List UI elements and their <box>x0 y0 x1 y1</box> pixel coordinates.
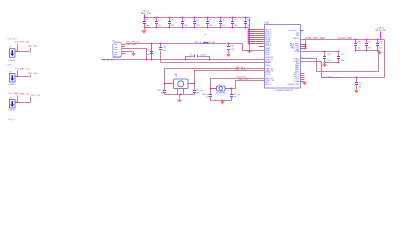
svg-text:L5V_uxx_F: L5V_uxx_F <box>102 60 113 62</box>
capacitor C16 <box>324 52 326 57</box>
capacitor C5 <box>182 18 184 22</box>
wire J7 pin <box>16 102 31 104</box>
svg-text:U2A: U2A <box>265 21 270 24</box>
svg-text:STM32F103RCT6: STM32F103RCT6 <box>275 90 294 92</box>
ground Y2 <box>222 100 224 101</box>
wire vbus drop <box>151 44 153 61</box>
wire right cap group bottom rail <box>356 50 379 52</box>
wire SWD pins <box>301 44 306 46</box>
wire VDD pin 3 <box>249 33 265 35</box>
wire USB5V long <box>102 59 265 61</box>
svg-text:VCC_BAT_5V0: VCC_BAT_5V0 <box>15 68 30 71</box>
usb pin stub <box>122 51 126 53</box>
usb pin stub <box>122 48 126 50</box>
crystal Y2 <box>217 86 226 91</box>
usb pin stub <box>122 46 126 48</box>
wire VBUS <box>126 43 243 45</box>
svg-text:xxx_x: xxx_x <box>8 118 15 121</box>
svg-text:via out Tw: via out Tw <box>288 29 297 32</box>
capacitor C6 <box>194 18 196 22</box>
wire J5 to power label <box>17 44 19 52</box>
wire XTAL_OUT <box>195 71 265 84</box>
ground C13 <box>228 53 230 54</box>
connector J6 body <box>10 74 16 83</box>
svg-text:3V3_OUT_5V0: 3V3_OUT_5V0 <box>15 41 30 43</box>
wire X32K_IN <box>211 79 265 89</box>
wire J7 to net label <box>30 97 32 103</box>
capacitor C3 <box>156 18 158 22</box>
wire cap bank top rail <box>145 17 250 19</box>
wire VDD pin 4 <box>249 35 265 37</box>
wire Y1 case pins <box>177 89 179 95</box>
svg-text:VSSA: VSSA <box>295 80 301 83</box>
crystal Y1 <box>174 79 189 89</box>
capacitor C14 <box>194 84 196 91</box>
mcu U2 body <box>265 25 301 89</box>
usb pin stub <box>122 44 126 46</box>
wire SWCLK net <box>301 39 385 41</box>
svg-text:FBL_uv: FBL_uv <box>195 42 202 44</box>
ground usb <box>122 51 134 53</box>
svg-text:PB10: PB10 <box>265 48 270 50</box>
ground VSSA <box>304 81 306 83</box>
capacitor C19 <box>366 40 368 44</box>
junction USB5V dots <box>146 59 148 61</box>
svg-text:PB12: PB12 <box>265 54 270 56</box>
svg-text:xCB-02: xCB-02 <box>8 84 16 86</box>
ground MCU VSS <box>249 50 251 51</box>
svg-text:1: 1 <box>16 75 17 77</box>
wire series cap bump <box>186 57 194 60</box>
wire Y2 right pad <box>226 88 232 90</box>
svg-text:xCB-02: xCB-02 <box>8 60 16 62</box>
wire J6 to net label <box>30 75 32 77</box>
capacitor C4 <box>169 18 171 22</box>
svg-text:SWCLK: SWCLK <box>293 38 300 40</box>
wire Y2 left pad <box>211 88 217 90</box>
capacitor C12 <box>164 84 166 91</box>
wire USB_D+ <box>126 49 147 60</box>
svg-text:220nF: 220nF <box>200 55 206 57</box>
usb pin stub <box>122 53 126 55</box>
wire VDD pin 5 <box>249 37 265 39</box>
svg-text:BOOT: BOOT <box>265 84 271 86</box>
wire VDD pin 1 <box>249 29 265 31</box>
wire J6 to power label <box>17 71 19 77</box>
wire VCAP2 net <box>301 40 385 78</box>
svg-text:MCL_J6D: MCL_J6D <box>28 73 38 75</box>
wire VUSB to MCU <box>161 62 265 64</box>
capacitor C10 <box>151 44 153 52</box>
svg-text:VCC_BAT_5V0: VCC_BAT_5V0 <box>15 93 30 96</box>
svg-text:L1.5M_TCK1_SWD: L1.5M_TCK1_SWD <box>305 38 325 40</box>
svg-text:x: x <box>301 32 302 34</box>
wire J5 pin <box>16 51 31 53</box>
wire XTAL_IN <box>165 69 265 84</box>
capacitor C15 <box>210 89 212 95</box>
capacitor C21 <box>356 77 358 79</box>
wire Y1 ground rail <box>165 94 195 96</box>
svg-text:uu1_RRRR_1_clar: uu1_RRRR_1_clar <box>322 76 340 79</box>
connector J5 body <box>10 49 16 58</box>
wire cap C11 drop <box>160 51 162 63</box>
svg-text:VSS_2: VSS_2 <box>265 45 271 47</box>
svg-text:MCL_J7D: MCL_J7D <box>31 95 41 97</box>
capacitor C17 <box>338 52 340 57</box>
wire VSS column to ground <box>249 44 251 50</box>
svg-text:USB_DM50: USB_DM50 <box>126 44 137 46</box>
wire VDD pin 2 <box>249 31 265 33</box>
ferrite bead FB1 <box>203 42 207 43</box>
svg-text:PC11: PC11 <box>265 74 270 76</box>
svg-text:PB14: PB14 <box>265 65 270 67</box>
svg-text:nc: nc <box>204 34 206 36</box>
svg-text:Txpin1/4_SWO: Txpin1/4_SWO <box>337 38 353 40</box>
wire Y1 right pad <box>189 83 195 85</box>
capacitor C22 <box>231 89 233 95</box>
ground Y1 <box>179 95 181 100</box>
ground cap bank <box>144 28 146 31</box>
wire VSSA stub <box>301 81 305 83</box>
wire VDDM rail <box>301 51 339 53</box>
ground right cap group <box>379 50 381 51</box>
capacitor C20 <box>377 40 379 44</box>
wire cap bank bottom rail <box>145 27 250 29</box>
svg-text:32.768KHZ: 32.768KHZ <box>216 93 226 95</box>
svg-text:MCU_P00: MCU_P00 <box>141 13 152 15</box>
capacitor C11 <box>160 44 162 48</box>
wire VDDM bottom rail <box>325 62 339 64</box>
wire J5 to net label <box>30 48 32 52</box>
wire PC13 stubs <box>301 73 305 75</box>
capacitor C9 series <box>194 55 196 58</box>
svg-text:X32K_OUT: X32K_OUT <box>238 79 249 81</box>
svg-text:PB4: PB4 <box>296 35 299 37</box>
usb connector J4 <box>113 42 122 57</box>
capacitor C18 <box>355 40 357 44</box>
capacitor C10 <box>245 18 247 22</box>
svg-text:1: 1 <box>16 101 17 103</box>
svg-text:MINIUSB: MINIUSB <box>113 57 122 59</box>
wire VDD pin 7 <box>249 41 265 43</box>
capacitor C13 <box>228 44 230 47</box>
svg-text:600_1A: 600_1A <box>208 41 216 44</box>
svg-text:8M: 8M <box>175 74 178 76</box>
ground C21 <box>356 89 358 90</box>
wire VCAP1 loop <box>301 51 379 72</box>
wire cap bank to MCU power pins <box>249 18 251 44</box>
svg-text:xCB-02: xCB-02 <box>8 109 16 111</box>
wire NRST stub <box>259 46 265 48</box>
wire J6 pin <box>16 76 31 78</box>
svg-text:PA8: PA8 <box>296 48 299 51</box>
connector J7 body <box>10 100 16 109</box>
ground VDDM caps <box>324 63 326 65</box>
svg-text:XTAL_OUT_u: XTAL_OUT_u <box>235 69 249 72</box>
capacitor C2 <box>144 18 146 22</box>
svg-text:OSC32K_3276: OSC32K_3276 <box>287 84 299 86</box>
junction VBUS dots <box>151 43 153 45</box>
wire VDD pin 6 <box>249 39 265 41</box>
capacitor C7 <box>207 18 209 22</box>
wire BOOT0 stub <box>301 30 304 32</box>
svg-text:xxx_xxx: xxx_xxx <box>8 37 18 40</box>
wire Y2 ground rail <box>211 100 232 102</box>
svg-text:MCL_J5D: MCL_J5D <box>28 45 38 47</box>
wire VDD pin 8 <box>249 43 265 45</box>
capacitor C8 <box>220 18 222 22</box>
svg-text:C9_u: C9_u <box>190 55 195 57</box>
wire J7 to power label <box>17 96 19 103</box>
wire Y1 left pad <box>165 83 174 85</box>
svg-text:PC13: PC13 <box>295 71 300 73</box>
svg-text:1: 1 <box>16 50 17 52</box>
capacitor C9 <box>232 18 234 22</box>
wire X32K_OUT <box>232 81 265 89</box>
